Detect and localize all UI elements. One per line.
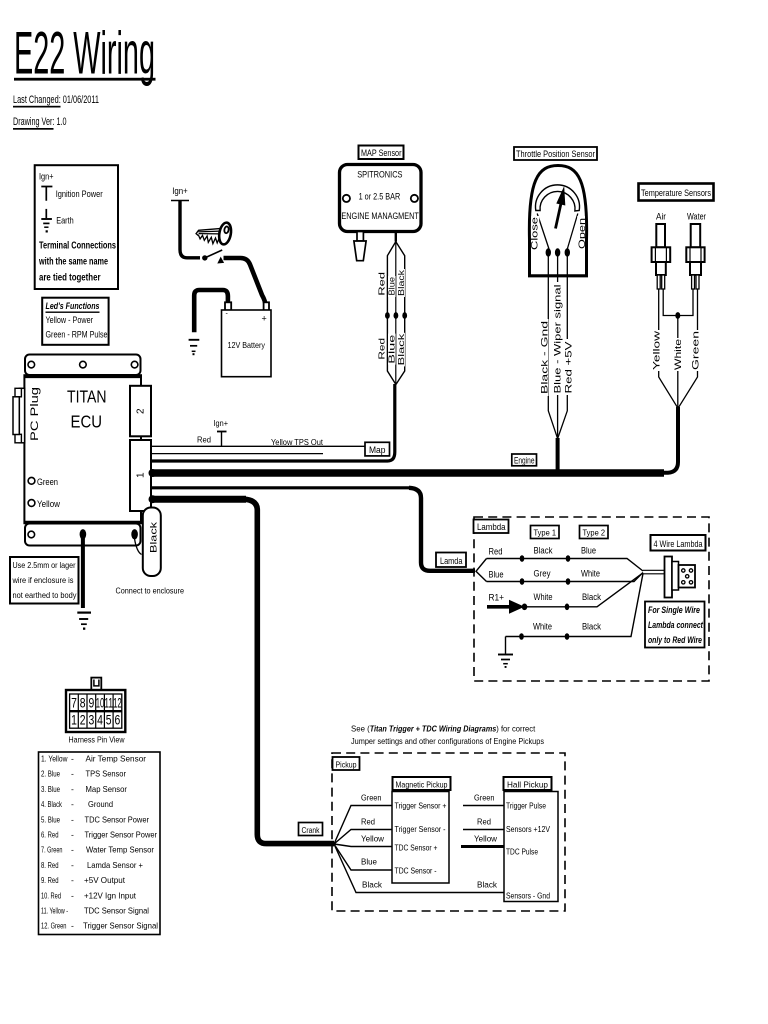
svg-text:1. Yellow: 1. Yellow	[41, 754, 68, 764]
lambda row1 wire	[487, 546, 644, 571]
hall pickup box	[504, 792, 558, 902]
battery 12V	[222, 302, 272, 376]
ECU main box	[24, 375, 141, 523]
TPS needle	[556, 186, 566, 229]
legend note text	[38, 241, 116, 284]
svg-text:See (: See (	[351, 724, 370, 734]
wire 4 lambda wire	[151, 486, 411, 489]
svg-text:Titan Trigger + TDC Wiring Dia: Titan Trigger + TDC Wiring Diagrams	[370, 724, 497, 734]
svg-text:Red: Red	[489, 547, 503, 557]
MAP cable bundle	[387, 230, 404, 385]
TPS open label	[577, 216, 588, 250]
map label	[365, 442, 390, 456]
svg-text:MAP Sensor: MAP Sensor	[361, 148, 402, 158]
svg-text:Black: Black	[477, 880, 498, 890]
svg-text:1: 1	[71, 713, 77, 728]
lambda row4 wire	[506, 574, 644, 640]
svg-text:5. Blue: 5. Blue	[41, 814, 60, 824]
legend ignition power symbol	[41, 187, 102, 201]
wire ign+ to switch	[180, 201, 200, 258]
svg-text:TDC Sensor Signal: TDC Sensor Signal	[84, 906, 149, 916]
led functions box	[42, 298, 108, 345]
svg-text:Lamda Sensor +: Lamda Sensor +	[87, 860, 143, 870]
svg-text:Yellow: Yellow	[37, 499, 60, 509]
svg-text:wire if enclosure is: wire if enclosure is	[12, 575, 74, 585]
magnetic pickup label	[393, 777, 451, 790]
wire yellow tps out stub	[151, 453, 323, 455]
svg-text:6. Red: 6. Red	[41, 830, 59, 840]
svg-text:11: 11	[104, 696, 113, 711]
svg-text:-: -	[71, 875, 74, 885]
svg-text:Green - RPM Pulse: Green - RPM Pulse	[46, 330, 108, 340]
svg-text:Hall Pickup: Hall Pickup	[507, 779, 548, 789]
svg-text:Lambda connect: Lambda connect	[648, 620, 704, 631]
svg-text:-: -	[71, 799, 74, 809]
svg-text:Air: Air	[656, 212, 666, 222]
svg-text:R1+: R1+	[489, 593, 505, 603]
wire 3 engine wire	[149, 469, 665, 477]
pickup label box	[333, 757, 360, 770]
harness pin list box	[39, 752, 161, 935]
see titan trigger note	[351, 724, 544, 747]
svg-text:2: 2	[136, 408, 147, 414]
svg-text:Blue: Blue	[361, 857, 377, 867]
svg-text:Trigger Sensor Power: Trigger Sensor Power	[85, 830, 158, 840]
svg-text:7. Green: 7. Green	[41, 845, 63, 855]
subtitle Last Changed	[13, 94, 99, 108]
svg-text:10: 10	[96, 696, 105, 711]
svg-text:Lambda: Lambda	[477, 522, 506, 532]
svg-text:Map: Map	[369, 445, 386, 455]
svg-text:11. Yellow -: 11. Yellow -	[41, 906, 68, 916]
lambda row3 R1+ arrow	[487, 573, 643, 614]
svg-text:-: -	[71, 754, 74, 764]
svg-text:only to Red Wire: only to Red Wire	[648, 635, 703, 646]
svg-text:TDC Sensor +: TDC Sensor +	[395, 842, 438, 852]
MAP sensor label	[359, 146, 404, 160]
svg-text:9: 9	[89, 696, 95, 711]
legend earth symbol	[41, 209, 73, 233]
TPS pins	[546, 248, 570, 256]
svg-text:10. Red: 10. Red	[41, 890, 61, 900]
svg-text:Green: Green	[691, 331, 701, 370]
svg-text:Red: Red	[477, 817, 491, 827]
svg-text:-: -	[71, 890, 74, 900]
svg-text:+5V Output: +5V Output	[84, 875, 126, 885]
temperature sensors label	[639, 184, 714, 201]
svg-text:-: -	[71, 845, 74, 855]
junction dots map cable	[385, 312, 407, 319]
svg-text:Use 2.5mm or lager: Use 2.5mm or lager	[13, 560, 76, 570]
map cable labels lower Red Blue Black	[377, 332, 406, 366]
ECU connector 1	[130, 440, 151, 511]
svg-text:Blue: Blue	[489, 569, 504, 579]
svg-text:Trigger Pulse: Trigger Pulse	[506, 801, 546, 811]
svg-text:Grey: Grey	[534, 569, 551, 579]
svg-text:-: -	[71, 860, 74, 870]
svg-text:Pickup: Pickup	[336, 759, 357, 769]
svg-text:ENGINE MANAGMENT: ENGINE MANAGMENT	[341, 211, 419, 222]
ECU top bracket	[25, 355, 141, 376]
TPS body dome	[528, 166, 588, 276]
crank wire color labels	[361, 793, 385, 890]
svg-text:12: 12	[113, 696, 122, 711]
svg-text:9. Red: 9. Red	[41, 875, 59, 885]
svg-text:White: White	[533, 622, 552, 632]
svg-text:Throttle Position Sensor: Throttle Position Sensor	[516, 149, 595, 159]
svg-text:-: -	[71, 921, 74, 931]
svg-text:TDC Pulse: TDC Pulse	[506, 847, 538, 857]
node Ign+ key switch terminal	[171, 186, 189, 201]
ECU green led	[28, 477, 58, 487]
MAP connector trapezoid	[354, 232, 366, 261]
svg-text:Type 2: Type 2	[583, 528, 606, 538]
svg-text:8: 8	[80, 696, 86, 711]
svg-text:Green: Green	[37, 477, 58, 487]
harness connector body	[66, 690, 125, 732]
use 2.5mm wire note box	[10, 557, 79, 604]
svg-text:) for correct: ) for correct	[496, 724, 535, 734]
lambda chevron left	[476, 559, 487, 582]
svg-text:Yellow: Yellow	[652, 330, 662, 370]
lambda row2 wire	[487, 569, 644, 585]
TPS cable wires	[548, 256, 567, 439]
ECU connector 2	[130, 386, 151, 437]
svg-text:Trigger Sensor +: Trigger Sensor +	[395, 801, 447, 811]
svg-text:Blue: Blue	[388, 277, 397, 296]
black enclosure strap	[135, 508, 161, 577]
wire 5 crank wire	[149, 495, 335, 843]
ground ECU case	[77, 613, 91, 630]
svg-text:Water Temp Sensor: Water Temp Sensor	[86, 845, 154, 855]
svg-text:Ground: Ground	[88, 799, 113, 809]
svg-text:-: -	[71, 784, 74, 794]
temp sensor wires	[659, 289, 698, 408]
svg-text:PC Plug: PC Plug	[29, 387, 41, 441]
svg-text:3. Blue: 3. Blue	[41, 784, 60, 794]
svg-text:TDC Sensor Power: TDC Sensor Power	[85, 814, 150, 824]
ign+ stub on wire	[197, 418, 228, 446]
type 1 label box	[531, 526, 560, 539]
ECU PC plug DB9 connector	[13, 388, 25, 443]
4 wire lambda connector	[665, 557, 696, 598]
single wire lambda note box	[645, 602, 705, 648]
svg-text:Yellow: Yellow	[474, 834, 498, 844]
water sensor	[686, 212, 706, 290]
svg-text:Led's Functions: Led's Functions	[46, 301, 100, 312]
ground lambda row4	[498, 637, 513, 668]
svg-text:Last Changed: 01/06/2011: Last Changed: 01/06/2011	[13, 94, 99, 106]
MAP sensor body	[340, 165, 422, 232]
svg-text:Lamda: Lamda	[440, 556, 463, 566]
svg-text:E22 Wiring: E22 Wiring	[14, 20, 155, 87]
svg-text:2: 2	[80, 713, 86, 728]
svg-text:Map Sensor: Map Sensor	[86, 784, 128, 794]
svg-text:Trigger Sensor Signal: Trigger Sensor Signal	[83, 921, 158, 931]
hall pickup label	[504, 777, 552, 790]
svg-text:+12V Ign Input: +12V Ign Input	[84, 890, 137, 900]
svg-text:Sensors - Gnd: Sensors - Gnd	[506, 891, 550, 901]
type 2 label box	[580, 526, 609, 539]
wire TPS to engine wire	[556, 438, 560, 472]
svg-text:7: 7	[71, 696, 77, 711]
svg-text:Black: Black	[397, 269, 406, 296]
svg-text:2. Blue: 2. Blue	[41, 769, 60, 779]
crank label	[299, 823, 323, 836]
svg-text:Drawing Ver: 1.0: Drawing Ver: 1.0	[13, 116, 67, 128]
svg-text:White: White	[673, 339, 683, 370]
svg-text:12V Battery: 12V Battery	[228, 340, 266, 350]
subtitle Drawing Ver	[13, 116, 67, 130]
svg-text:Blue - Wiper signal: Blue - Wiper signal	[552, 285, 562, 394]
svg-text:Close: Close	[530, 217, 541, 250]
svg-text:Green: Green	[474, 793, 495, 803]
svg-text:Connect to enclosure: Connect to enclosure	[116, 586, 185, 596]
svg-text:Jumper settings and other conf: Jumper settings and other configurations…	[351, 736, 544, 746]
svg-text:Black: Black	[362, 880, 383, 890]
svg-text:For Single Wire: For Single Wire	[648, 605, 701, 616]
svg-text:Blue: Blue	[388, 334, 397, 364]
svg-text:4. Black: 4. Black	[41, 799, 62, 809]
crank fan wires	[334, 806, 504, 893]
svg-text:White: White	[534, 592, 553, 602]
svg-text:with the same name: with the same name	[38, 257, 108, 268]
svg-text:4: 4	[97, 713, 103, 728]
svg-text:Black: Black	[582, 622, 601, 632]
svg-text:TITAN: TITAN	[67, 387, 107, 407]
svg-text:Ignition Power: Ignition Power	[56, 189, 103, 200]
svg-text:Type 1: Type 1	[534, 528, 557, 538]
svg-text:TPS Sensor: TPS Sensor	[86, 769, 127, 779]
wire 2 map wire	[151, 384, 395, 461]
svg-text:+: +	[262, 314, 267, 324]
svg-text:-: -	[71, 769, 74, 779]
svg-text:ECU: ECU	[71, 412, 103, 432]
svg-text:Red: Red	[361, 817, 375, 827]
svg-text:3: 3	[89, 713, 95, 728]
svg-text:Terminal Connections: Terminal Connections	[39, 241, 116, 252]
svg-text:8. Red: 8. Red	[41, 860, 59, 870]
svg-text:Ign+: Ign+	[214, 418, 229, 428]
4 wire lambda label	[651, 535, 706, 551]
lambda label box	[474, 520, 509, 534]
svg-text:Ign+: Ign+	[172, 186, 188, 196]
svg-text:are tied together: are tied together	[39, 273, 101, 284]
svg-text:1 or 2.5 BAR: 1 or 2.5 BAR	[359, 192, 401, 203]
junction dot temp sensors	[675, 312, 680, 319]
svg-text:Crank: Crank	[302, 825, 321, 835]
key icon	[196, 222, 233, 246]
title E22 Wiring	[14, 20, 156, 87]
TPS arc to pin lines	[537, 214, 578, 250]
harness connector tab	[91, 678, 101, 690]
lambda connector leads	[643, 570, 665, 574]
svg-text:Black: Black	[149, 522, 160, 553]
wire ECU case ground	[81, 538, 85, 608]
svg-text:Black - Gnd: Black - Gnd	[539, 321, 549, 394]
svg-text:Black: Black	[397, 332, 406, 365]
ground battery	[189, 340, 200, 355]
pickup dashed box	[332, 753, 565, 911]
ECU yellow led	[28, 499, 60, 509]
ECU bottom bracket	[25, 524, 141, 546]
svg-text:Red: Red	[197, 435, 211, 445]
middle wires to hall pickup	[461, 793, 504, 890]
svg-text:-: -	[71, 830, 74, 840]
svg-text:Trigger Sensor -: Trigger Sensor -	[395, 824, 446, 834]
switch contact and blade	[202, 250, 224, 264]
svg-text:Air Temp Sensor: Air Temp Sensor	[86, 754, 147, 764]
TPS close label	[530, 216, 541, 251]
air sensor	[652, 212, 671, 290]
TPS cable labels	[539, 282, 573, 396]
svg-text:not earthed to body: not earthed to body	[13, 590, 78, 600]
svg-text:Earth: Earth	[56, 216, 73, 227]
svg-text:Black: Black	[534, 546, 553, 556]
svg-text:Magnetic Pickup: Magnetic Pickup	[396, 779, 448, 789]
magnetic pickup box	[392, 792, 449, 884]
svg-text:Open: Open	[577, 218, 588, 249]
wire switch to battery plus	[224, 258, 266, 306]
svg-text:1: 1	[136, 472, 147, 478]
svg-text:-: -	[71, 814, 74, 824]
temp cable labels	[651, 330, 701, 371]
svg-text:Black: Black	[582, 592, 601, 602]
legend box terminal connections	[35, 165, 118, 289]
svg-text:5: 5	[106, 713, 112, 728]
engine label	[512, 454, 537, 466]
svg-text:12. Green: 12. Green	[41, 921, 67, 931]
svg-text:Yellow TPS Out: Yellow TPS Out	[271, 437, 324, 447]
svg-text:6: 6	[115, 713, 121, 728]
svg-text:Red: Red	[377, 271, 386, 295]
svg-text:Blue: Blue	[581, 546, 596, 556]
svg-text:Green: Green	[361, 793, 382, 803]
svg-text:Red: Red	[377, 337, 386, 359]
lambda dashed box	[474, 517, 709, 681]
svg-text:Engine: Engine	[514, 455, 535, 465]
svg-text:Yellow: Yellow	[361, 834, 385, 844]
svg-text:Harness Pin View: Harness Pin View	[69, 735, 126, 745]
map cable labels upper Red Blue Black	[377, 269, 406, 297]
svg-text:4 Wire Lambda: 4 Wire Lambda	[654, 539, 703, 549]
svg-text:Water: Water	[687, 212, 706, 222]
svg-text:Red +5V: Red +5V	[563, 342, 573, 394]
wire temp sensors down to engine wire	[660, 407, 678, 473]
svg-text:Sensors +12V: Sensors +12V	[506, 824, 550, 834]
wire battery minus to ground	[194, 290, 228, 332]
lamda label	[436, 553, 466, 568]
svg-text:White: White	[581, 569, 600, 579]
svg-text:TDC Sensor -: TDC Sensor -	[395, 866, 437, 876]
TPS gauge arc	[536, 185, 580, 211]
svg-text:Ign+: Ign+	[39, 172, 54, 182]
throttle position sensor label	[514, 147, 597, 160]
svg-text:SPITRONICS: SPITRONICS	[357, 170, 402, 181]
wire 1 yellow TPS out	[151, 445, 389, 447]
svg-text:Yellow - Power: Yellow - Power	[46, 315, 94, 325]
svg-text:Temperature Sensors: Temperature Sensors	[641, 188, 711, 199]
